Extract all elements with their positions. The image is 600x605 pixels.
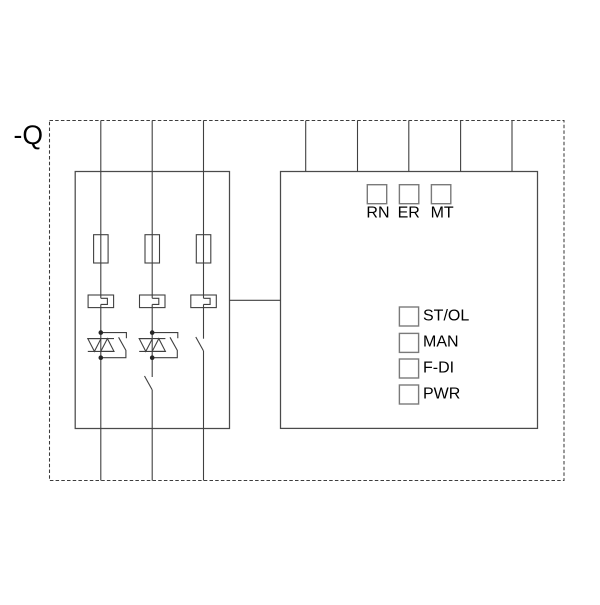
svg-text:PWR: PWR	[423, 386, 460, 403]
wire L2 top	[151, 121, 153, 299]
wire T2 bottom	[151, 429, 153, 481]
LED MT	[431, 185, 450, 204]
bypass contact L3	[196, 337, 204, 351]
current sensor L2	[140, 295, 166, 308]
control wire 4	[460, 121, 462, 172]
LED RN	[367, 185, 386, 204]
wire L1 mid	[100, 304, 102, 428]
wire L1 top	[100, 121, 102, 299]
thyristor pair V1 (anti-parallel SCRs, phase L1)	[88, 330, 127, 360]
indicator F-DI	[399, 359, 418, 378]
fuse L1	[94, 235, 109, 263]
enclosure dashed boundary	[50, 121, 565, 481]
indicator PWR	[399, 385, 418, 404]
control wire 3	[408, 121, 410, 172]
indicator MAN	[399, 333, 418, 352]
wire L2 mid	[151, 304, 153, 377]
wire L2 below contact	[151, 390, 153, 429]
control wire 1	[305, 121, 307, 172]
svg-text:-Q: -Q	[14, 120, 43, 150]
bypass contact L2	[145, 376, 153, 390]
svg-text:F-DI: F-DI	[423, 360, 454, 377]
wire power-to-control link	[230, 299, 281, 301]
wire T1 bottom	[100, 429, 102, 481]
current sensor L3	[191, 295, 217, 308]
control wire 5	[511, 121, 513, 172]
control wire 2	[357, 121, 359, 172]
svg-text:ER: ER	[398, 205, 420, 222]
current sensor L1	[88, 295, 114, 308]
svg-text:RN: RN	[366, 205, 389, 222]
svg-text:MT: MT	[431, 205, 454, 222]
indicator ST/OL	[399, 307, 418, 326]
power section block	[75, 172, 229, 429]
fuse L2	[145, 235, 160, 263]
wire L3 top	[203, 121, 205, 299]
wire L3 mid	[203, 304, 205, 338]
control section block	[281, 172, 538, 429]
wire T3 bottom	[203, 429, 205, 481]
fuse L3	[196, 235, 211, 263]
svg-text:ST/OL: ST/OL	[423, 308, 469, 325]
LED ER	[399, 185, 418, 204]
svg-text:MAN: MAN	[423, 334, 459, 351]
thyristor pair V2 (anti-parallel SCRs, phase L2)	[139, 330, 178, 360]
wire L3 below contact	[203, 351, 205, 429]
